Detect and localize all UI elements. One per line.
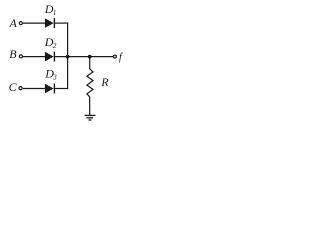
svg-text:R: R: [100, 75, 109, 89]
svg-text:2: 2: [53, 41, 57, 50]
svg-text:A: A: [9, 16, 18, 30]
svg-text:B: B: [9, 47, 17, 61]
svg-text:f: f: [119, 52, 123, 63]
svg-text:C: C: [9, 80, 18, 94]
svg-text:3: 3: [52, 72, 57, 81]
svg-text:1: 1: [53, 8, 57, 17]
